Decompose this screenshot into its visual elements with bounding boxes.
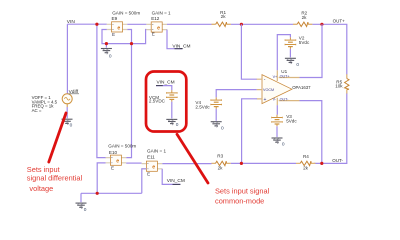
wire: V+ supply loop to V2 [277, 35, 290, 71]
svg-text:E: E [152, 32, 155, 37]
svg-text:E10: E10 [109, 150, 118, 155]
svg-text:0: 0 [176, 122, 179, 128]
value labels VOFF/VAMPL/FREQ/AC of Vdiff [32, 95, 58, 113]
wire: V3 minus to ground [276, 126, 278, 137]
svg-text:VIN_CM: VIN_CM [167, 178, 185, 184]
svg-text:R4: R4 [303, 154, 309, 159]
resistor R2 [293, 11, 312, 27]
svg-text:0: 0 [282, 142, 285, 148]
svg-text:2k: 2k [221, 14, 227, 19]
wire: E11 out+ to R3 [162, 163, 211, 165]
svg-text:VIN: VIN [67, 19, 76, 25]
svg-text:Sets input signal: Sets input signal [215, 187, 270, 196]
svg-text:U1: U1 [281, 69, 287, 74]
label Vdiff [68, 89, 79, 95]
resistor R5 [335, 74, 349, 93]
svg-text:E: E [111, 165, 114, 170]
wire: Vdiff vertical drop from VIN corner [66, 24, 68, 94]
annotation text: Sets input signal common-mode [215, 187, 270, 206]
svg-text:E: E [147, 171, 150, 176]
wire: op-amp OUT- down to bottom rail [300, 101, 322, 164]
VCVS E11 [142, 155, 163, 177]
wire: VIN_CM stub to VCM source [156, 86, 172, 91]
ground 0 below V4 [211, 122, 224, 132]
svg-text:E12: E12 [151, 16, 160, 21]
wire: V4 minus to ground [215, 109, 217, 121]
wire: VCM minus to ground [171, 102, 173, 119]
svg-text:GAIN = 1: GAIN = 1 [152, 10, 171, 15]
svg-text:R3: R3 [217, 154, 223, 159]
svg-text:GAIN = 500m: GAIN = 500m [108, 143, 136, 148]
svg-text:V+: V+ [273, 75, 278, 79]
svg-text:2.5VDC: 2.5VDC [149, 99, 166, 104]
wire: V2 minus to ground [289, 49, 291, 58]
wire: op-amp noninverting input from R3/R4 rail [242, 99, 257, 164]
wire: feedback vertical to op-amp inverting input [241, 24, 257, 79]
node VIN_CM label (bottom) [167, 178, 185, 184]
svg-text:+: + [264, 97, 267, 103]
resistor R1 [212, 10, 231, 27]
annotation red callout line to differential text [49, 113, 66, 162]
wire: E11 in- from bottom ground rail [142, 169, 147, 194]
ground 0 bottom rail [76, 203, 87, 213]
svg-text:E: E [112, 32, 115, 37]
wire: E9 out- long vertical down to E10 out+ [126, 30, 131, 158]
VCVS E9 [107, 16, 128, 37]
svg-text:2k: 2k [303, 165, 309, 170]
wire: Vdiff bottom to ground [66, 107, 68, 118]
resistor R3 [211, 154, 230, 171]
svg-text:Sets input: Sets input [27, 165, 60, 174]
junction dot on top rail at VIN branch [95, 23, 98, 26]
wire: op-amp OUT+ up to OUT+ net [300, 24, 323, 77]
resistor R4 [296, 154, 315, 170]
svg-text:VIN_CM: VIN_CM [157, 80, 175, 86]
junction dot OUT+ net [320, 23, 323, 26]
ground 0 of E9 loop [101, 49, 112, 60]
svg-text:GAIN = 500m: GAIN = 500m [112, 10, 140, 15]
svg-text:5Vdc: 5Vdc [299, 40, 310, 45]
svg-text:2k: 2k [302, 15, 308, 20]
svg-text:0: 0 [109, 54, 112, 60]
wire: VOCM input from V4 [216, 90, 256, 98]
VCVS E10 [106, 150, 127, 171]
svg-text:2.5Vdc: 2.5Vdc [195, 104, 210, 109]
svg-text:OUT-: OUT- [332, 158, 343, 163]
junction dot OUT- net [320, 162, 323, 165]
voltage source Vdiff [62, 94, 72, 107]
svg-text:5Vdc: 5Vdc [286, 118, 297, 123]
svg-text:OUT-: OUT- [280, 97, 290, 101]
svg-text:0: 0 [296, 62, 299, 68]
svg-text:AC =: AC = [32, 108, 42, 113]
wire: R5 bottom to OUT- rail [314, 94, 347, 164]
op-amp U1 OPA1637 [257, 70, 300, 105]
ground 0 below Vdiff [62, 119, 73, 128]
annotation red callout line to common-mode text [177, 134, 208, 183]
svg-text:10k: 10k [335, 84, 343, 89]
svg-text:0: 0 [70, 123, 73, 129]
wire: vertical from VIN junction down to E10 in+ [97, 24, 106, 157]
dc source V4 [195, 97, 221, 109]
junction dot noninverting tap [240, 162, 243, 165]
svg-text:E11: E11 [147, 155, 155, 160]
dc source V2 [285, 36, 310, 49]
svg-text:0: 0 [84, 207, 87, 213]
wire: E9 in- loop to ground rail and up to E12 in- [102, 30, 146, 44]
annotation text: Sets input signal differential voltage [27, 165, 83, 193]
wire: E12 out+ to R1 [167, 23, 212, 25]
svg-text:OUT+: OUT+ [333, 18, 345, 23]
svg-text:V-: V- [273, 98, 277, 102]
wire: E10 in- to bottom ground rail [97, 163, 105, 193]
wire: E10 out- to E11 in+ [126, 162, 141, 164]
svg-text:OPA1637: OPA1637 [292, 85, 311, 90]
svg-text:signal differential: signal differential [27, 174, 83, 183]
wire: top rail VIN from corner to E9 in+ [67, 23, 106, 25]
svg-text:E9: E9 [112, 16, 118, 21]
annotation red rounded rectangle around VCM [146, 72, 186, 132]
ground 0 below V3 [272, 138, 285, 148]
node VIN_CM label (VCM) [156, 80, 175, 86]
wire: R2 to OUT+ corner and down to R5 [312, 24, 346, 74]
svg-text:2k: 2k [218, 166, 224, 171]
svg-text:common-mode: common-mode [215, 196, 264, 205]
ground 0 below VCM [166, 119, 179, 127]
wire: E11 out- down to VIN_CM stub [162, 169, 180, 185]
wire: V- supply to V3 [276, 105, 278, 115]
svg-text:OUT+: OUT+ [280, 74, 290, 78]
ground 0 below V2 [285, 58, 300, 68]
wire: R3 to R4 rail [231, 162, 296, 164]
svg-text:voltage: voltage [29, 184, 53, 193]
wire: R1 to R2 [231, 23, 293, 25]
dc source VCM [149, 90, 177, 103]
wire: ground stem on E9 ground rail [105, 44, 107, 48]
wire: E9 out+ to E12 in+ [127, 23, 146, 25]
junction dot feedback tap under R1 right [240, 23, 243, 26]
junction dot where E9 out- crosses ground rail [130, 42, 133, 45]
svg-text:VOCM: VOCM [263, 88, 274, 92]
wire: bottom ground rail [81, 192, 142, 194]
svg-text:0: 0 [221, 125, 224, 131]
wire: E12 out- down and right to VIN_CM stub [167, 30, 183, 49]
VCVS E12 [146, 16, 167, 36]
wire: ground stem bottom rail [80, 193, 82, 202]
junction dot bottom rail [96, 192, 99, 195]
dc source V3 [272, 114, 298, 126]
svg-text:GAIN = 1: GAIN = 1 [147, 149, 166, 154]
svg-text:VIN_CM: VIN_CM [172, 44, 190, 50]
node VIN_CM label (top) [172, 44, 190, 50]
junction dot ground stem [105, 42, 108, 45]
